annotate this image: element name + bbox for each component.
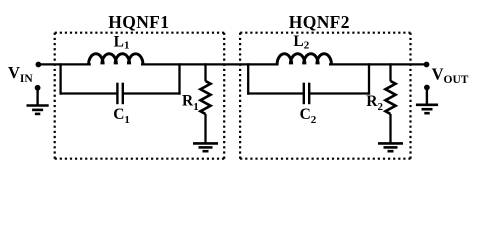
resistor R2 [386, 81, 396, 114]
capacitor C1 [117, 83, 122, 105]
wire VOUT ground stem [426, 88, 428, 104]
ground (VIN) [27, 106, 49, 114]
wire R2 bottom [389, 114, 391, 143]
resistor R1 [201, 81, 211, 114]
VIN ground reference dot [35, 85, 41, 91]
wire C2 branch left horizontal [247, 92, 304, 94]
wire C2 branch right vertical [368, 63, 370, 94]
dashed box HQNF2 [240, 33, 410, 159]
wire C1 branch right horizontal [123, 92, 181, 94]
ground (VOUT) [416, 105, 438, 113]
wire R1 top [204, 63, 206, 81]
wire R1 bottom [204, 114, 206, 143]
node VIN terminal dot [36, 62, 42, 68]
wire R2 top [389, 63, 391, 81]
wire VIN to L1 [38, 63, 90, 65]
wire C1 branch left horizontal [60, 92, 118, 94]
dashed box HQNF1 [55, 33, 225, 159]
svg-text:HQNF1: HQNF1 [108, 12, 169, 32]
wire C2 branch right horizontal [309, 92, 370, 94]
wire C1 branch right vertical [178, 63, 180, 94]
wire L1 to box2 L2 [141, 63, 279, 65]
wire C2 branch left vertical [247, 63, 249, 94]
wire L2 to VOUT [329, 63, 427, 65]
node VOUT terminal dot [424, 62, 430, 68]
wire VIN ground stem [36, 88, 38, 105]
VOUT ground reference dot [424, 85, 430, 91]
ground (R1) [193, 143, 218, 151]
wire C1 branch left vertical [59, 63, 61, 94]
inductor L1 [89, 54, 143, 65]
capacitor C2 [304, 83, 309, 105]
inductor L2 [277, 54, 331, 65]
ground (R2) [378, 143, 403, 151]
svg-text:HQNF2: HQNF2 [289, 12, 350, 32]
